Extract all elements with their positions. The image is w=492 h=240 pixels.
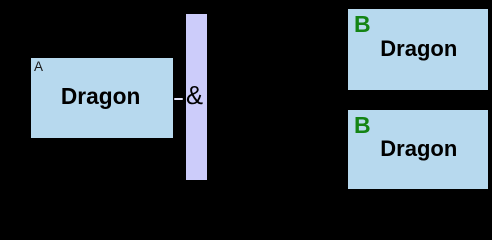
- gate symbol &: [186, 84, 203, 110]
- AND gate U1 (IEC bar): [186, 14, 207, 179]
- value Dragon: [380, 138, 457, 160]
- input block A (Dragon): [31, 58, 173, 138]
- label B: [354, 13, 371, 36]
- label A: [34, 60, 43, 74]
- output block B bottom (Dragon): [348, 110, 488, 189]
- value Dragon: [380, 38, 457, 60]
- wire from A to gate: [174, 98, 183, 101]
- label B: [354, 114, 371, 137]
- value Dragon: [61, 85, 140, 108]
- output block B top (Dragon): [348, 9, 488, 90]
